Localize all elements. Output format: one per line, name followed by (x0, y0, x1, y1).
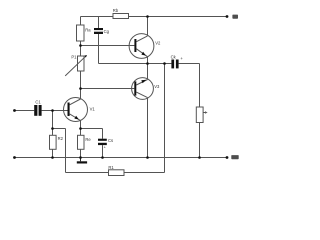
wire top rail left segment (81, 16, 114, 18)
transistor V3 circle (132, 78, 154, 100)
svg-text:R2: R2 (58, 136, 64, 141)
resistor RL (196, 107, 203, 123)
node RL rail junction (198, 156, 201, 159)
node V3 collector rail junction (146, 156, 149, 159)
ground stub (79, 158, 82, 162)
svg-text:R1: R1 (108, 165, 114, 170)
transistor V1 base bar (68, 103, 70, 117)
capacitor Cg bottom plate (94, 32, 103, 34)
wire V3 collector (147, 98, 149, 158)
capacitor Ck right plate (176, 60, 179, 69)
transistor V1 emitter diagonal (70, 114, 81, 121)
wire emitter node to Cs (81, 128, 103, 130)
node Cs rail junction (101, 156, 104, 159)
transistor V1 circle (64, 98, 88, 122)
capacitor Cg top plate (94, 28, 103, 30)
potentiometer P1 arrow (65, 56, 85, 76)
resistor RL tap stub (203, 112, 206, 114)
svg-text:Cg: Cg (104, 29, 110, 34)
wire RL to rail (199, 123, 201, 158)
resistor Ra (77, 25, 85, 41)
node R2 rail junction (51, 156, 54, 159)
node Ra P1 junction (79, 44, 82, 47)
wire mid node to Ck (148, 63, 172, 65)
wire node to V2 base (81, 45, 135, 47)
svg-text:V1: V1 (90, 107, 96, 112)
svg-text:Cs: Cs (108, 138, 113, 143)
wire V2 collector (147, 17, 149, 36)
potentiometer P1 body (78, 56, 85, 71)
svg-text:+: + (104, 146, 107, 150)
wire P1 to collector node (80, 71, 82, 89)
capacitor C1 right plate (39, 105, 42, 116)
transistor V2 circle (129, 34, 154, 59)
node input terminal top (13, 109, 16, 112)
wire Re to rail (80, 149, 82, 157)
node supply terminal plus (226, 15, 229, 18)
wire input terminal to C1 (15, 110, 35, 112)
wire feedback right vertical (164, 64, 166, 173)
transistor V3 emitter arrow (141, 80, 146, 84)
wire Ra to node (80, 41, 82, 46)
node mid emitters junction (146, 62, 149, 65)
wire base node to V1 base (53, 110, 68, 112)
wire C1 to base node (42, 110, 53, 112)
label supply plus 9V (232, 15, 238, 19)
svg-text:C1: C1 (35, 100, 41, 105)
svg-text:Ra: Ra (85, 28, 91, 33)
transistor V1 emitter arrow (74, 116, 79, 120)
wire Cg top lead (98, 17, 100, 29)
wire Cg bottom lead (98, 34, 100, 64)
wire V1 emitter (80, 121, 82, 129)
svg-text:V3: V3 (154, 84, 160, 89)
wire feedback bottom left (66, 172, 109, 174)
wire bottom rail (15, 157, 228, 159)
node C1 base junction (51, 109, 54, 112)
svg-text:P1: P1 (71, 55, 77, 60)
wire Cs top lead (102, 129, 104, 139)
resistor R1 (109, 170, 125, 176)
transistor V2 base bar (134, 39, 136, 52)
node V1 collector junction (79, 87, 82, 90)
wire V1 collector (80, 89, 82, 100)
ground bar (77, 161, 87, 163)
wire V2 emitter (147, 57, 149, 64)
node supply terminal minus (226, 156, 229, 159)
capacitor C1 left plate (34, 105, 37, 116)
transistor V2 emitter arrow (141, 52, 146, 56)
transistor V1 collector diagonal (70, 99, 81, 105)
svg-text:Re: Re (85, 137, 91, 142)
wire top rail right segment (129, 16, 228, 18)
label supply minus 0V (231, 155, 238, 159)
transistor V2 collector diagonal (136, 36, 147, 42)
potentiometer P1 arrowhead (84, 55, 87, 58)
svg-text:V2: V2 (155, 41, 161, 46)
node feedback tap junction (51, 127, 54, 130)
wire base node down to R2 (52, 111, 54, 136)
wire R2 to rail (52, 149, 54, 157)
wire Ck to output corner (179, 63, 200, 65)
svg-text:Ck: Ck (171, 55, 177, 60)
wire V1 collector node to V3 base (81, 88, 135, 90)
wire node to pot P1 (80, 46, 82, 57)
capacitor Cs bottom plate (98, 143, 107, 145)
wire output down to RL (199, 64, 201, 108)
transistor V3 emitter diagonal (136, 80, 147, 86)
transistor V3 collector diagonal (136, 92, 147, 98)
node V2 collector rail junction (146, 15, 149, 18)
wire feedback left vertical (65, 129, 67, 173)
svg-text:Rb: Rb (113, 8, 119, 13)
resistor RL tap arrowhead (205, 111, 208, 113)
node Re rail junction (79, 156, 82, 159)
wire feedback tap right (53, 128, 66, 130)
transistor V2 emitter diagonal (136, 49, 147, 57)
wire Cs bottom lead (102, 145, 104, 157)
wire V3 emitter (147, 64, 149, 80)
node feedback output junction (163, 62, 166, 65)
transistor V3 base bar (134, 81, 136, 95)
wire emitter node to Re (80, 129, 82, 136)
wire Cg corner to mid node (99, 63, 148, 65)
svg-text:+: + (180, 56, 183, 61)
resistor Rb (113, 14, 129, 19)
wire Ra column from rail (80, 17, 82, 26)
wire feedback bottom right (124, 172, 165, 174)
node input terminal bottom (13, 156, 16, 159)
capacitor Cs top plate (98, 139, 107, 141)
resistor Re (78, 135, 85, 149)
node V1 emitter junction (79, 127, 82, 130)
capacitor Ck left plate (171, 60, 174, 69)
resistor R2 (50, 135, 57, 149)
